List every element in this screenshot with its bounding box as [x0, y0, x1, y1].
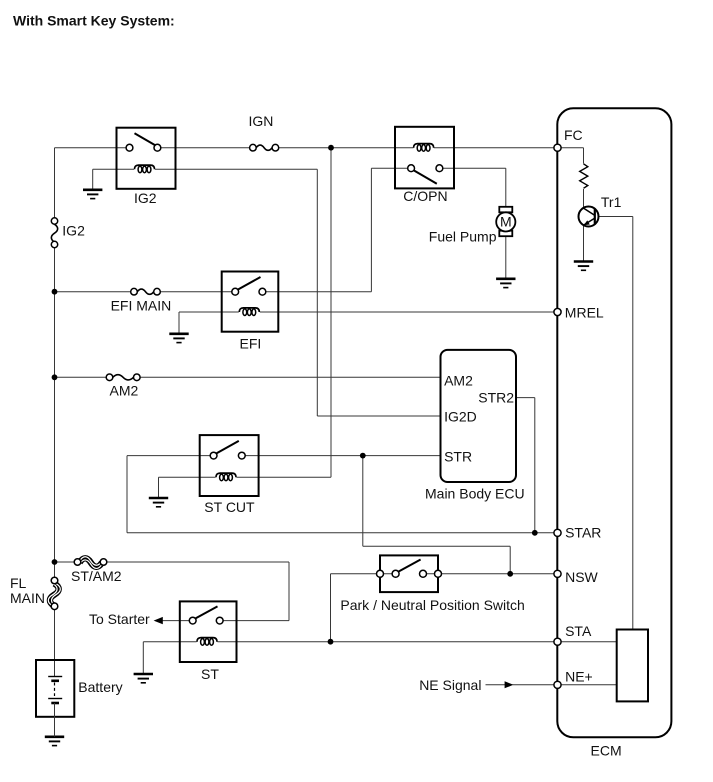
svg-text:MREL: MREL [565, 305, 604, 321]
svg-text:FC: FC [564, 127, 583, 143]
svg-text:To Starter: To Starter [89, 611, 150, 627]
svg-text:Tr1: Tr1 [601, 194, 622, 210]
svg-text:ECM: ECM [591, 743, 622, 759]
svg-text:Main Body ECU: Main Body ECU [425, 485, 525, 501]
svg-text:EFI MAIN: EFI MAIN [111, 297, 172, 313]
svg-text:IG2: IG2 [62, 222, 85, 238]
svg-text:With Smart Key System:: With Smart Key System: [13, 13, 175, 29]
svg-text:IG2D: IG2D [444, 409, 477, 425]
svg-text:C/OPN: C/OPN [403, 188, 447, 204]
svg-text:STR: STR [444, 448, 472, 464]
svg-text:AM2: AM2 [110, 383, 139, 399]
svg-text:MAIN: MAIN [10, 590, 45, 606]
svg-text:STR2: STR2 [478, 390, 514, 406]
svg-text:EFI: EFI [240, 336, 262, 352]
svg-text:NSW: NSW [565, 569, 598, 585]
svg-text:NE+: NE+ [565, 669, 593, 685]
svg-text:IG2: IG2 [134, 190, 157, 206]
svg-text:Fuel Pump: Fuel Pump [429, 229, 497, 245]
svg-text:M: M [500, 214, 512, 230]
svg-text:ST/AM2: ST/AM2 [71, 568, 122, 584]
svg-text:AM2: AM2 [444, 372, 473, 388]
svg-text:ST CUT: ST CUT [204, 499, 255, 515]
svg-text:STAR: STAR [565, 525, 601, 541]
svg-text:FL: FL [10, 575, 27, 591]
svg-text:Battery: Battery [78, 679, 122, 695]
svg-text:Park / Neutral Position Switch: Park / Neutral Position Switch [340, 597, 524, 613]
svg-text:STA: STA [565, 623, 592, 639]
svg-text:NE Signal: NE Signal [419, 677, 481, 693]
svg-text:IGN: IGN [249, 113, 274, 129]
svg-text:ST: ST [201, 666, 219, 682]
